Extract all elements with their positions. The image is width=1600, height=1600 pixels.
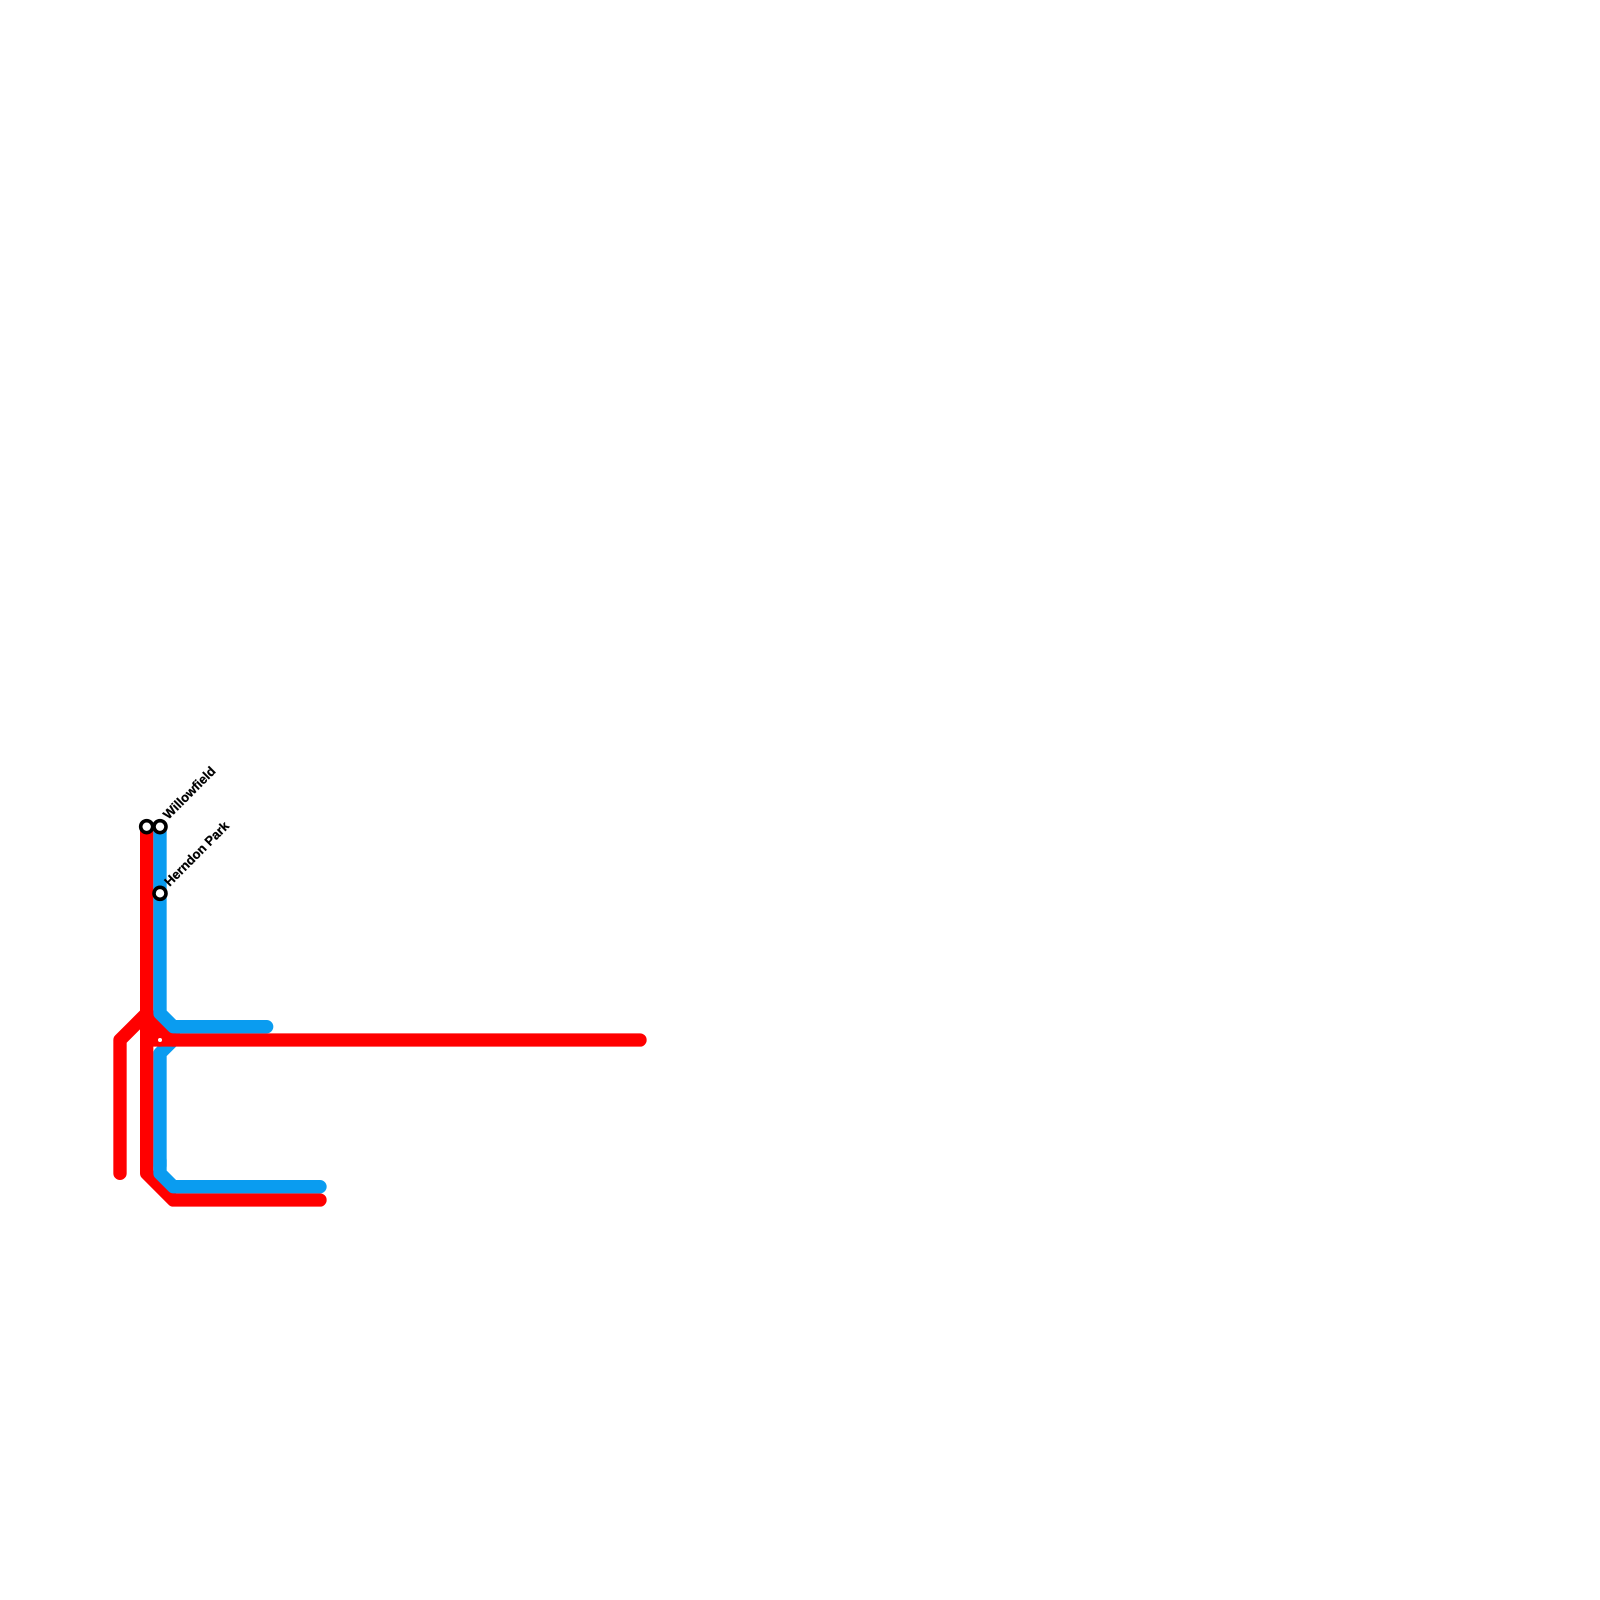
node: Herndon Park station marker	[154, 887, 166, 899]
label: Herndon Park	[164, 820, 230, 886]
node: tiny junction dot	[158, 1038, 162, 1042]
wire: red line left branch	[120, 1013, 147, 1173]
wire: red line main (vertical + bottom horizontal)	[147, 827, 320, 1200]
node: Willowfield station marker (red line)	[141, 821, 153, 833]
wire: red line diagonal to middle horizontal	[147, 1013, 174, 1040]
node: Willowfield station marker (blue line)	[154, 821, 166, 833]
label: Willowfield	[162, 766, 216, 820]
wire: red line middle horizontal	[147, 1033, 640, 1046]
wire: blue line top vertical + upper horizontal	[160, 827, 267, 1027]
wire: blue line bottom (over red)	[160, 1160, 320, 1187]
wire: blue line lower descent (under red)	[160, 1030, 173, 1166]
wire: red line short diagonal fill at junction	[147, 1027, 160, 1040]
